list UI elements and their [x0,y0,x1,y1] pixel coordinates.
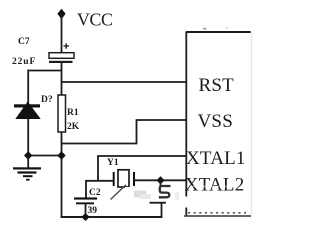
svg-text:D?: D? [41,95,53,105]
wire XTAL1 [98,156,186,181]
wire C2 top stub [85,180,87,198]
node junction left [24,151,32,159]
watermark grey blob [134,191,146,198]
svg-text:39: 39 [88,206,98,216]
IC bottom dotted watermark row [188,212,246,214]
node junction XTAL2 [156,176,164,184]
resistor R1 [58,95,66,132]
node junction C2 bottom [81,213,89,221]
crystal Y1 [114,170,134,187]
svg-text:XTAL1: XTAL1 [186,148,246,169]
wire C3 bottom stub [161,203,163,218]
capacitor C3 (partially obscured by watermark) [150,186,171,204]
wire resistor down to bottom [61,132,63,218]
svg-text:VSS: VSS [198,111,233,132]
IC U1 bottom edge [184,215,251,217]
capacitor C2 [74,197,97,204]
wire C3 top stub [160,180,162,186]
capacitor C7 [49,43,74,63]
ground [13,156,41,181]
watermark diagonal stroke [111,185,127,200]
svg-text:XTAL2: XTAL2 [185,174,245,195]
wire diode to junction [27,118,29,156]
watermark white box [125,187,156,206]
svg-text:C7: C7 [18,37,30,47]
svg-text:VCC: VCC [77,9,113,29]
wire diode branch vertical [27,70,29,105]
wire cap to resistor [61,63,63,96]
VCC power symbol [57,9,112,30]
wire ground junction horizontal [28,155,62,157]
svg-text:C2: C2 [89,188,101,198]
watermark nicks on IC left edge [184,197,189,208]
svg-text:22uF: 22uF [12,57,36,67]
svg-text:R1: R1 [67,108,79,118]
wire bottom [61,216,163,218]
wire VCC stem [61,14,63,53]
IC U1 left edge [185,32,187,217]
svg-text:Y1: Y1 [107,158,119,168]
svg-text:RST: RST [199,75,235,96]
wire VSS step [62,120,187,144]
IC U1 top edge [186,31,251,33]
IC U1 right edge (faint) [251,32,253,215]
wire C2 bottom stub [85,204,87,217]
stray dots above IC [203,28,206,30]
wire crystal left segment [86,180,114,182]
node junction right [57,151,65,159]
wire diode branch horizontal [28,70,63,72]
wire RST [62,81,187,83]
wire crystal right segment (XTAL2) [134,179,186,181]
diode D? [14,102,41,120]
svg-text:2K: 2K [67,122,80,132]
